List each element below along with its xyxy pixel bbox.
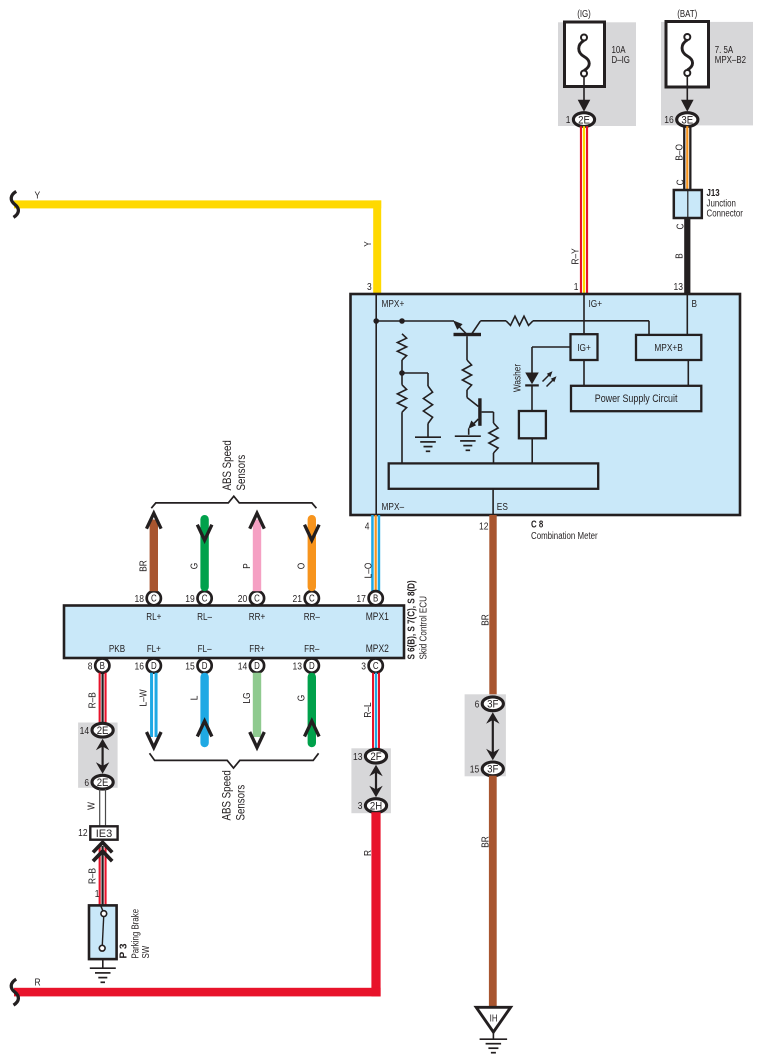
svg-text:3: 3 (367, 282, 372, 293)
svg-text:BR: BR (139, 560, 150, 572)
svg-text:Y: Y (35, 190, 41, 201)
svg-text:3F: 3F (487, 764, 499, 776)
svg-text:C 8: C 8 (531, 520, 544, 531)
svg-text:B: B (674, 253, 685, 259)
svg-text:D: D (254, 661, 260, 672)
svg-text:Combination Meter: Combination Meter (531, 531, 598, 542)
svg-text:Washer: Washer (513, 363, 524, 392)
svg-text:FL–: FL– (198, 644, 212, 655)
svg-text:PKB: PKB (109, 644, 125, 655)
svg-text:6: 6 (84, 778, 89, 789)
svg-text:3F: 3F (487, 699, 499, 711)
svg-text:Parking Brake: Parking Brake (130, 908, 141, 958)
svg-text:G: G (297, 695, 308, 702)
svg-text:J13: J13 (707, 188, 721, 199)
svg-text:B–O: B–O (674, 144, 685, 161)
svg-text:3: 3 (361, 661, 366, 672)
svg-text:RL–: RL– (197, 612, 212, 623)
svg-text:IH: IH (490, 1013, 498, 1024)
svg-text:R–B: R–B (88, 868, 99, 884)
svg-text:G: G (189, 563, 200, 570)
svg-text:16: 16 (664, 115, 674, 126)
svg-text:3E: 3E (681, 114, 693, 126)
svg-text:B: B (692, 299, 698, 310)
svg-text:Y: Y (363, 241, 374, 247)
svg-text:R–L: R–L (363, 702, 374, 717)
svg-text:SW: SW (141, 945, 152, 958)
svg-text:W: W (87, 802, 98, 810)
svg-text:12: 12 (479, 521, 489, 532)
svg-text:C: C (202, 594, 208, 605)
svg-text:R–B: R–B (88, 692, 99, 708)
svg-text:C: C (309, 594, 315, 605)
svg-text:S 6(B), S 7(C), S 8(D): S 6(B), S 7(C), S 8(D) (407, 580, 418, 659)
svg-text:B: B (100, 661, 106, 672)
svg-text:L: L (189, 695, 200, 700)
svg-text:4: 4 (365, 521, 370, 532)
svg-text:Sensors: Sensors (234, 785, 248, 821)
svg-text:C: C (151, 594, 157, 605)
svg-text:P 3: P 3 (119, 943, 130, 959)
svg-text:C: C (254, 594, 260, 605)
svg-text:12: 12 (78, 828, 88, 839)
svg-text:13: 13 (674, 282, 684, 293)
svg-text:RR–: RR– (304, 612, 321, 623)
svg-text:R: R (35, 978, 41, 989)
svg-text:1: 1 (574, 282, 579, 293)
svg-text:FL+: FL+ (147, 644, 161, 655)
svg-text:13: 13 (293, 661, 303, 672)
svg-text:3: 3 (358, 801, 363, 812)
svg-text:O: O (297, 563, 308, 570)
svg-text:17: 17 (356, 594, 366, 605)
svg-text:MPX2: MPX2 (366, 643, 389, 655)
svg-text:14: 14 (80, 726, 90, 737)
svg-text:D: D (151, 661, 157, 672)
svg-text:Sensors: Sensors (234, 455, 248, 491)
svg-text:LG: LG (242, 692, 253, 703)
svg-text:8: 8 (88, 661, 93, 672)
svg-text:20: 20 (238, 594, 248, 605)
svg-text:L–W: L–W (139, 689, 150, 706)
svg-text:FR+: FR+ (249, 644, 265, 655)
svg-text:D: D (309, 661, 315, 672)
svg-text:FR–: FR– (304, 644, 320, 655)
svg-text:21: 21 (293, 594, 303, 605)
svg-text:18: 18 (135, 594, 145, 605)
svg-text:MPX+B: MPX+B (654, 343, 682, 354)
svg-text:Connector: Connector (707, 209, 744, 220)
svg-text:RL+: RL+ (146, 612, 161, 623)
svg-text:16: 16 (135, 661, 145, 672)
svg-text:MPX+: MPX+ (382, 299, 405, 310)
svg-text:P: P (242, 563, 253, 569)
svg-text:1: 1 (566, 115, 571, 126)
svg-text:Power Supply Circuit: Power Supply Circuit (595, 393, 678, 405)
svg-text:B: B (373, 594, 379, 605)
svg-text:BR: BR (481, 614, 492, 626)
svg-text:IE3: IE3 (96, 828, 113, 840)
svg-text:2H: 2H (370, 800, 382, 812)
svg-text:C: C (676, 179, 687, 185)
svg-text:R: R (363, 850, 374, 856)
svg-text:2E: 2E (578, 114, 590, 126)
svg-text:ABS Speed: ABS Speed (220, 440, 234, 490)
svg-text:(BAT): (BAT) (677, 9, 697, 20)
svg-text:D: D (202, 661, 208, 672)
svg-text:C: C (373, 661, 379, 672)
svg-text:BR: BR (481, 836, 492, 848)
svg-text:2E: 2E (97, 777, 109, 789)
svg-text:15: 15 (470, 765, 480, 776)
svg-text:L–O: L–O (363, 563, 374, 579)
svg-text:2F: 2F (370, 751, 382, 763)
svg-text:R–Y: R–Y (571, 248, 582, 264)
svg-text:6: 6 (475, 699, 480, 710)
svg-text:Skid Control ECU: Skid Control ECU (418, 596, 429, 660)
svg-text:14: 14 (238, 661, 248, 672)
svg-text:RR+: RR+ (249, 612, 266, 623)
svg-text:ES: ES (497, 502, 508, 513)
svg-text:IG+: IG+ (589, 299, 603, 310)
svg-text:MPX–B2: MPX–B2 (715, 55, 746, 66)
svg-text:D–IG: D–IG (612, 55, 630, 66)
svg-text:(IG): (IG) (577, 9, 591, 20)
svg-text:IG+: IG+ (577, 343, 591, 354)
svg-text:1: 1 (95, 889, 100, 900)
svg-text:MPX–: MPX– (382, 502, 405, 513)
svg-text:13: 13 (353, 752, 363, 763)
svg-text:ABS Speed: ABS Speed (220, 770, 234, 820)
svg-text:19: 19 (185, 594, 195, 605)
svg-text:15: 15 (185, 661, 195, 672)
svg-text:2E: 2E (97, 725, 109, 737)
svg-text:MPX1: MPX1 (366, 611, 389, 623)
